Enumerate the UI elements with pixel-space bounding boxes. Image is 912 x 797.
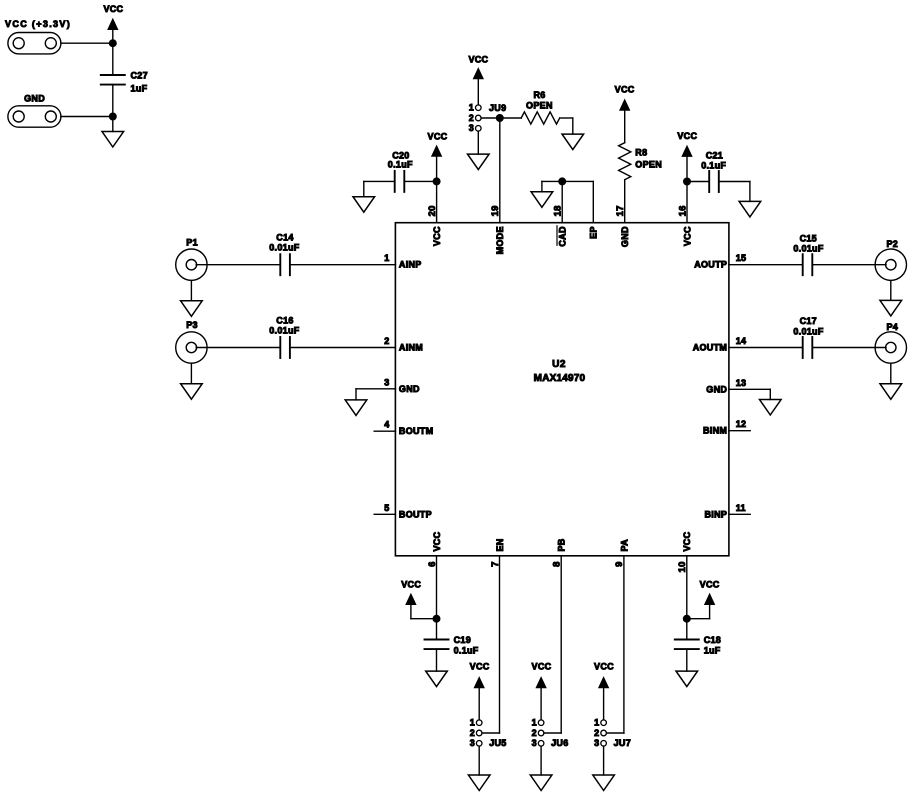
svg-text:VCC (+3.3V): VCC (+3.3V) bbox=[5, 19, 71, 29]
svg-text:JU7: JU7 bbox=[614, 738, 631, 748]
svg-text:4: 4 bbox=[384, 420, 389, 430]
svg-text:VCC: VCC bbox=[432, 226, 442, 246]
svg-text:0.01uF: 0.01uF bbox=[793, 326, 824, 336]
svg-text:AOUTP: AOUTP bbox=[694, 260, 727, 270]
svg-text:VCC: VCC bbox=[103, 4, 123, 14]
svg-text:P4: P4 bbox=[886, 322, 898, 332]
svg-text:EN: EN bbox=[495, 538, 505, 551]
svg-text:3: 3 bbox=[470, 738, 475, 748]
svg-text:BOUTM: BOUTM bbox=[399, 426, 434, 436]
svg-text:BINM: BINM bbox=[703, 426, 727, 436]
svg-text:1: 1 bbox=[470, 718, 475, 728]
svg-text:2: 2 bbox=[469, 113, 474, 123]
svg-text:VCC: VCC bbox=[432, 531, 442, 551]
svg-text:0.01uF: 0.01uF bbox=[793, 244, 824, 254]
svg-text:2: 2 bbox=[384, 336, 389, 346]
svg-text:P3: P3 bbox=[186, 320, 198, 330]
svg-text:6: 6 bbox=[427, 561, 438, 567]
svg-text:0.01uF: 0.01uF bbox=[269, 243, 300, 253]
svg-text:19: 19 bbox=[490, 205, 501, 216]
svg-text:11: 11 bbox=[736, 503, 746, 513]
svg-text:PA: PA bbox=[619, 539, 629, 552]
svg-text:VCC: VCC bbox=[682, 531, 692, 551]
svg-text:P2: P2 bbox=[886, 239, 898, 249]
svg-text:5: 5 bbox=[384, 503, 389, 513]
svg-text:VCC: VCC bbox=[428, 132, 448, 142]
svg-text:C27: C27 bbox=[131, 70, 148, 80]
svg-text:8: 8 bbox=[552, 561, 563, 567]
svg-text:GND: GND bbox=[620, 226, 630, 247]
svg-text:AINP: AINP bbox=[399, 260, 422, 270]
svg-text:VCC: VCC bbox=[401, 579, 421, 589]
svg-text:JU5: JU5 bbox=[489, 738, 506, 748]
svg-text:VCC: VCC bbox=[532, 662, 552, 672]
svg-text:3: 3 bbox=[594, 738, 599, 748]
svg-text:CAD: CAD bbox=[558, 226, 568, 247]
svg-text:C19: C19 bbox=[454, 635, 471, 645]
svg-text:VCC: VCC bbox=[468, 55, 488, 65]
svg-text:C14: C14 bbox=[276, 233, 293, 243]
svg-text:3: 3 bbox=[384, 377, 389, 387]
svg-text:1: 1 bbox=[594, 718, 599, 728]
svg-text:2: 2 bbox=[532, 728, 537, 738]
svg-text:JU6: JU6 bbox=[551, 738, 568, 748]
svg-text:2: 2 bbox=[594, 728, 599, 738]
svg-text:1uF: 1uF bbox=[704, 646, 721, 656]
svg-text:0.01uF: 0.01uF bbox=[269, 325, 300, 335]
svg-text:AINM: AINM bbox=[399, 343, 423, 353]
svg-text:GND: GND bbox=[399, 384, 420, 394]
svg-text:3: 3 bbox=[532, 738, 537, 748]
svg-text:12: 12 bbox=[736, 419, 747, 429]
svg-text:R8: R8 bbox=[635, 148, 647, 158]
svg-text:P1: P1 bbox=[186, 238, 198, 248]
svg-text:AOUTM: AOUTM bbox=[693, 343, 728, 353]
svg-text:7: 7 bbox=[490, 561, 501, 567]
svg-text:3: 3 bbox=[469, 123, 474, 133]
svg-text:1uF: 1uF bbox=[131, 83, 148, 93]
svg-text:17: 17 bbox=[615, 205, 626, 216]
svg-text:U2: U2 bbox=[552, 359, 566, 370]
svg-text:20: 20 bbox=[427, 205, 438, 216]
svg-text:GND: GND bbox=[24, 93, 45, 103]
svg-text:1: 1 bbox=[384, 253, 389, 263]
svg-text:R6: R6 bbox=[533, 90, 545, 100]
svg-text:BOUTP: BOUTP bbox=[399, 509, 432, 519]
svg-text:C15: C15 bbox=[800, 233, 817, 243]
svg-text:C16: C16 bbox=[276, 315, 293, 325]
svg-text:10: 10 bbox=[677, 561, 688, 572]
svg-text:MODE: MODE bbox=[495, 226, 505, 254]
svg-text:VCC: VCC bbox=[677, 131, 697, 141]
svg-text:VCC: VCC bbox=[682, 226, 692, 246]
svg-text:0.1uF: 0.1uF bbox=[701, 161, 726, 171]
svg-text:MAX14970: MAX14970 bbox=[534, 373, 586, 384]
svg-text:C17: C17 bbox=[800, 316, 817, 326]
svg-text:1: 1 bbox=[469, 103, 474, 113]
svg-text:PB: PB bbox=[557, 538, 567, 551]
svg-text:9: 9 bbox=[614, 561, 625, 567]
svg-text:C18: C18 bbox=[704, 635, 721, 645]
svg-text:EP: EP bbox=[589, 226, 599, 239]
svg-text:JU9: JU9 bbox=[489, 103, 506, 113]
svg-text:OPEN: OPEN bbox=[526, 100, 553, 110]
svg-text:VCC: VCC bbox=[615, 85, 635, 95]
svg-text:OPEN: OPEN bbox=[635, 160, 662, 170]
svg-text:GND: GND bbox=[706, 384, 727, 394]
svg-text:BINP: BINP bbox=[704, 510, 727, 520]
svg-text:VCC: VCC bbox=[470, 662, 490, 672]
svg-text:VCC: VCC bbox=[700, 579, 720, 589]
svg-text:0.1uF: 0.1uF bbox=[388, 160, 413, 170]
svg-text:2: 2 bbox=[470, 728, 475, 738]
svg-text:14: 14 bbox=[736, 336, 747, 346]
svg-text:15: 15 bbox=[736, 253, 747, 263]
svg-text:16: 16 bbox=[677, 205, 688, 216]
svg-text:1: 1 bbox=[532, 718, 537, 728]
svg-text:13: 13 bbox=[736, 378, 747, 388]
svg-text:C21: C21 bbox=[706, 150, 723, 160]
svg-text:18: 18 bbox=[553, 205, 564, 216]
svg-text:0.1uF: 0.1uF bbox=[454, 645, 479, 655]
svg-text:VCC: VCC bbox=[594, 662, 614, 672]
